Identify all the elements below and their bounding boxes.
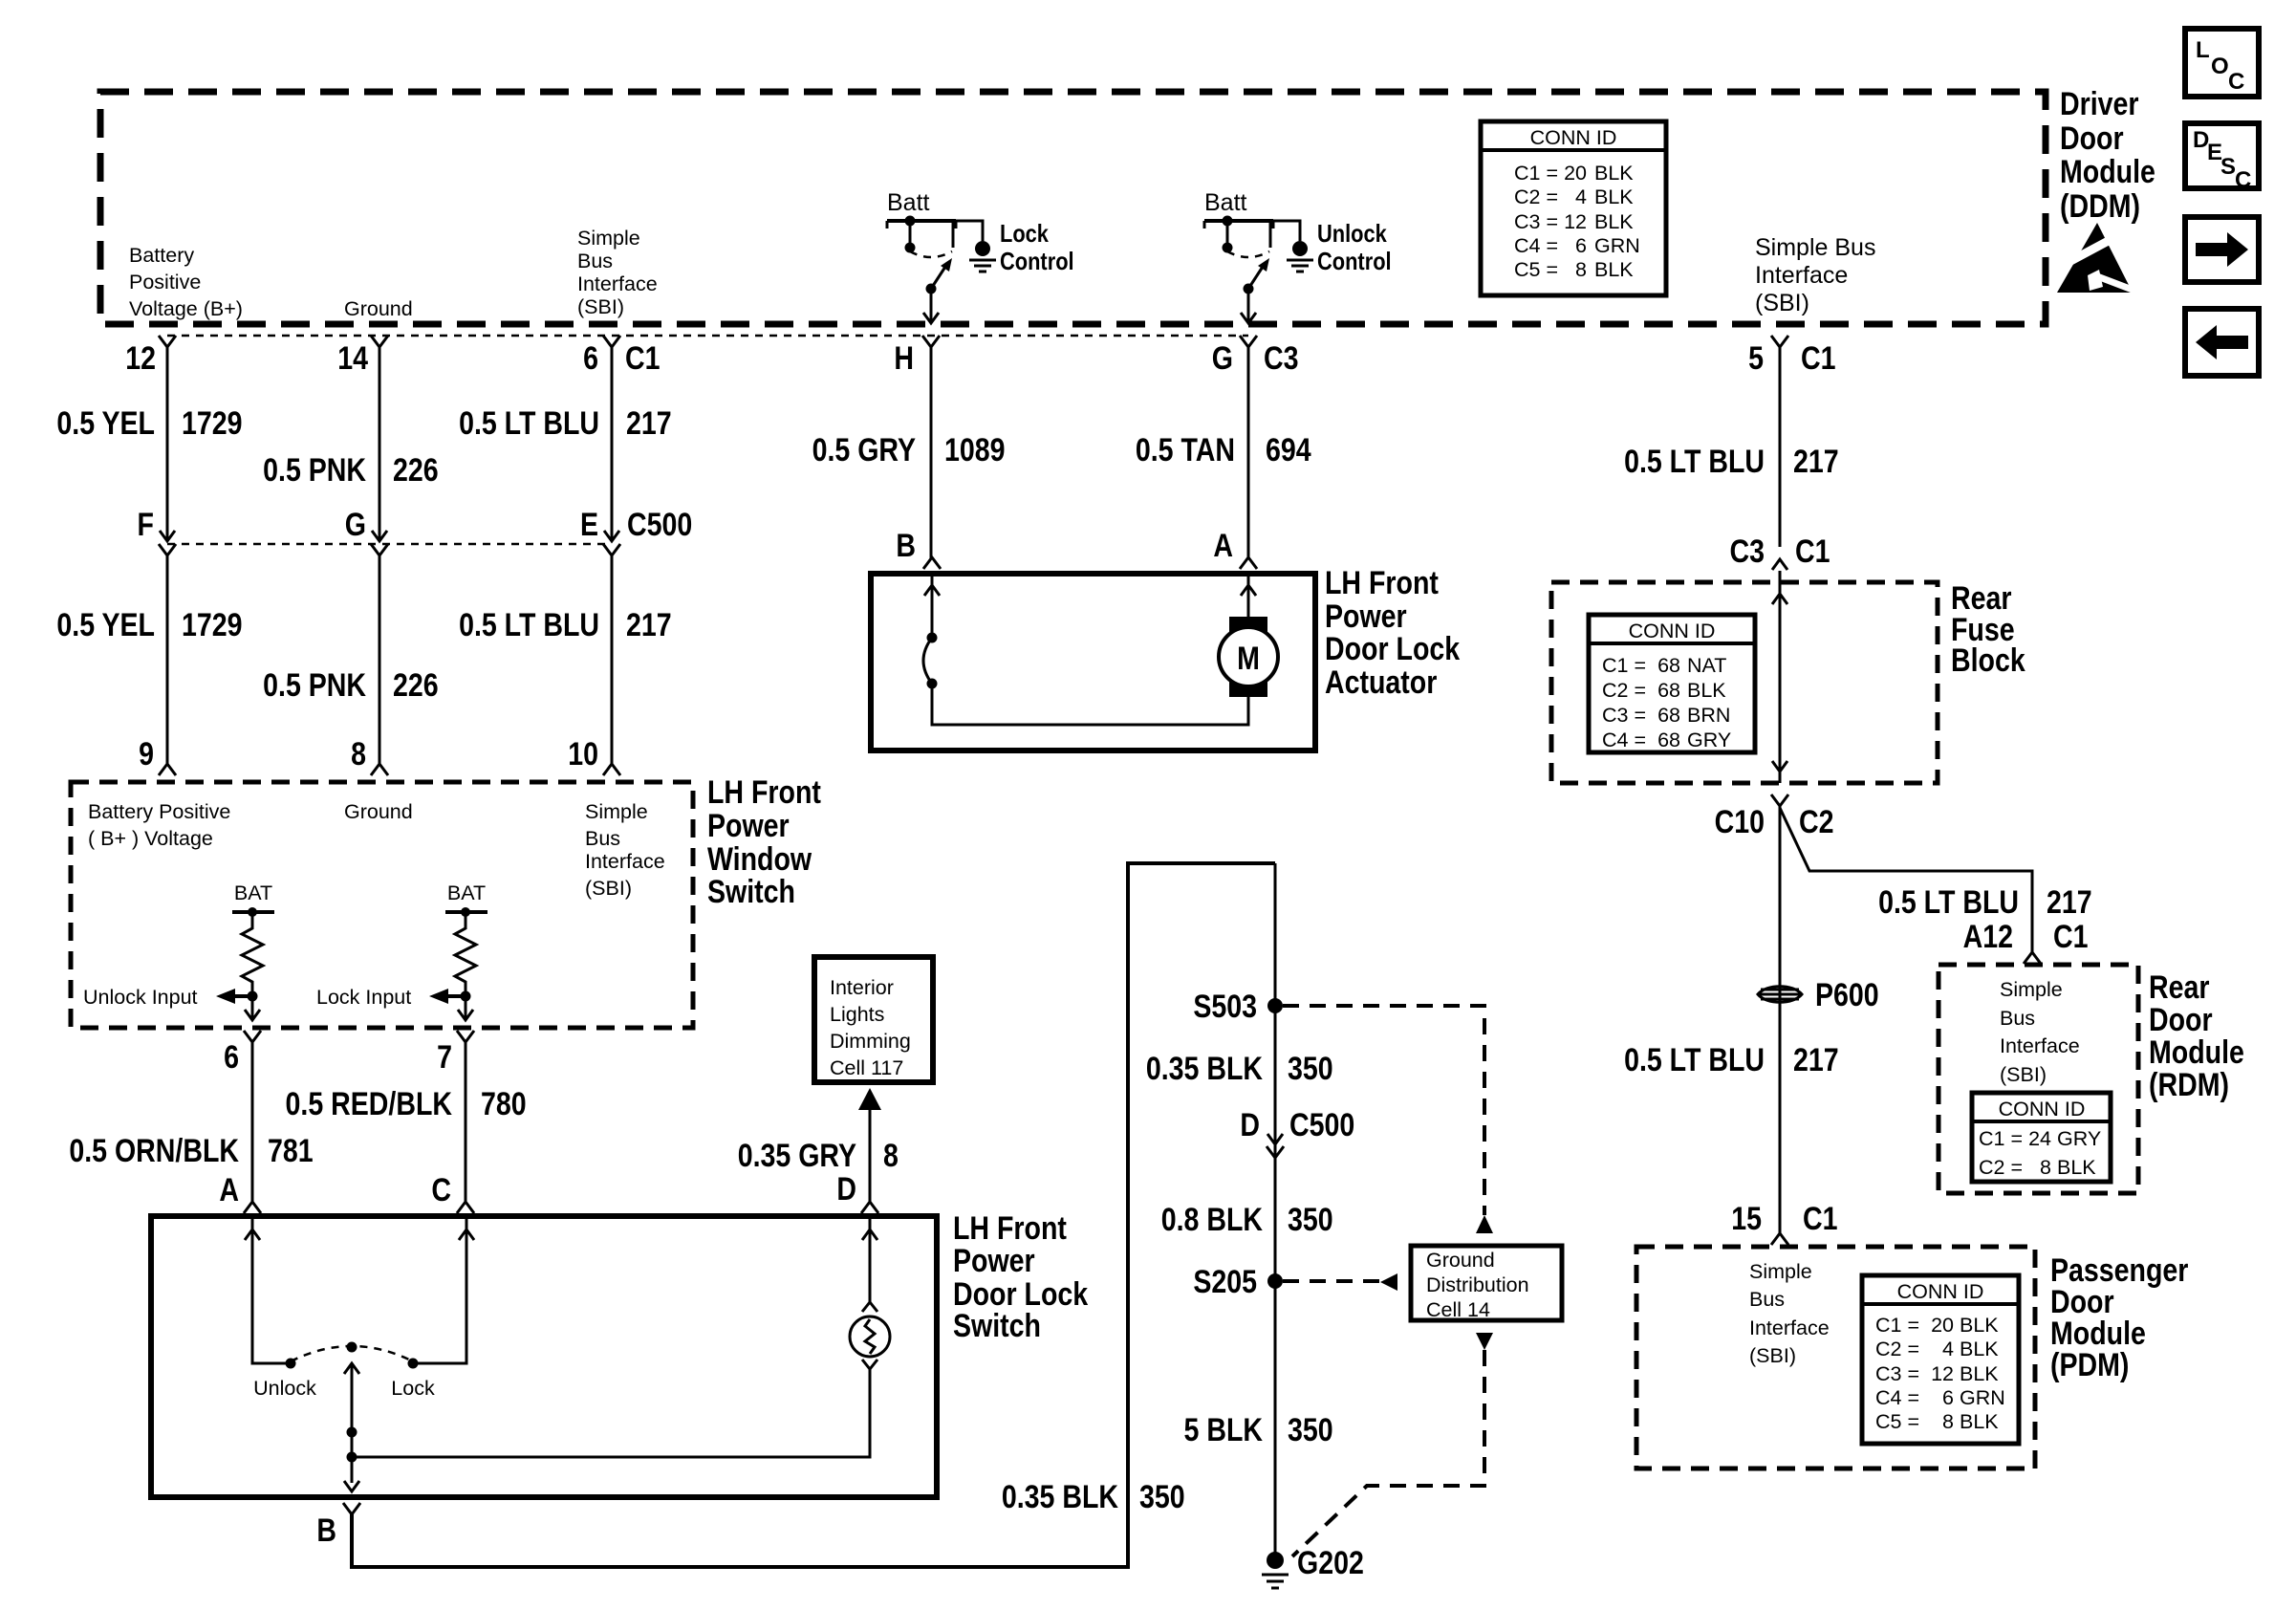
- actuator motor M: [1219, 617, 1278, 697]
- svg-text:Interface: Interface: [577, 272, 658, 295]
- actuator connector chevron pin B: [923, 557, 941, 569]
- window switch connector chevron at pin 9: [159, 764, 176, 775]
- svg-text:D: D: [1240, 1107, 1260, 1143]
- DDM CONN ID table: [1481, 121, 1666, 295]
- svg-text:Simple: Simple: [577, 227, 640, 250]
- svg-text:C1: C1: [625, 340, 660, 377]
- svg-text:C1: C1: [2053, 919, 2088, 955]
- svg-text:(SBI): (SBI): [585, 877, 632, 900]
- svg-text:C2 =: C2 =: [1979, 1156, 2023, 1179]
- Interior Lights Dimming Cell 117 box: [814, 957, 933, 1082]
- svg-text:12: 12: [1564, 210, 1587, 233]
- svg-text:0.5 RED/BLK: 0.5 RED/BLK: [286, 1086, 453, 1122]
- svg-text:Power: Power: [707, 808, 790, 844]
- Passenger Door Module (PDM) dashed box: [1636, 1247, 2035, 1469]
- RDM connector chevron: [2024, 952, 2041, 964]
- svg-text:0.5 YEL: 0.5 YEL: [56, 405, 155, 442]
- svg-text:C4 =: C4 =: [1514, 234, 1558, 257]
- Lock Control switch: dashed actuation arc: [910, 251, 952, 257]
- svg-text:(PDM): (PDM): [2050, 1347, 2129, 1383]
- svg-text:C2: C2: [1799, 804, 1833, 840]
- svg-text:217: 217: [626, 405, 672, 442]
- svg-text:217: 217: [2047, 884, 2092, 921]
- window switch label Battery Positive (B+) Voltage: [88, 800, 230, 850]
- svg-text:Interior: Interior: [830, 976, 894, 999]
- svg-text:D: D: [836, 1171, 856, 1207]
- dashed reference S503 to ground distribution: [1283, 1006, 1493, 1233]
- svg-text:Interface: Interface: [1749, 1316, 1830, 1339]
- wire 350 from switch B to ground run: [352, 863, 1275, 1567]
- svg-text:Unlock Input: Unlock Input: [83, 986, 198, 1009]
- wire label 0.5 GRY 1089: [812, 432, 1006, 468]
- svg-text:Power: Power: [953, 1243, 1035, 1279]
- svg-text:Ground: Ground: [344, 297, 413, 320]
- RDM label Simple Bus Interface (SBI): [2000, 978, 2080, 1086]
- svg-text:BLK: BLK: [1687, 679, 1726, 702]
- wire label 0.5 LT BLU 217 lower: [459, 607, 672, 643]
- svg-text:Cell 14: Cell 14: [1426, 1298, 1490, 1321]
- svg-text:Bus: Bus: [1749, 1288, 1785, 1311]
- svg-text:0.5 TAN: 0.5 TAN: [1136, 432, 1235, 468]
- wire through rear fuse block: [1772, 571, 1787, 783]
- splice S503: [1193, 989, 1283, 1025]
- off-page arrow to dimming cell: [858, 1088, 881, 1203]
- wire 217 down to passenger door module: [1779, 806, 1782, 1234]
- LOC button: [2185, 29, 2259, 97]
- BAT pull-up resistor at x=264: [232, 881, 274, 1002]
- wire 1729 yellow lower segment: [166, 555, 169, 765]
- wire 226 pink upper segment: [379, 347, 381, 541]
- svg-text:Door: Door: [2060, 120, 2124, 157]
- svg-text:8: 8: [1942, 1410, 1954, 1433]
- Rear Door Module (RDM) dashed box: [1939, 965, 2138, 1193]
- svg-text:0.8 BLK: 0.8 BLK: [1161, 1202, 1264, 1238]
- wire label 0.35 GRY 8: [738, 1138, 899, 1174]
- svg-text:Cell 117: Cell 117: [830, 1056, 903, 1079]
- wire 217 SBI from DDM pin 5: [1779, 347, 1782, 547]
- svg-text:Lights: Lights: [830, 1003, 884, 1026]
- svg-text:780: 780: [481, 1086, 527, 1122]
- wire label 0.5 YEL 1729 upper: [56, 405, 242, 442]
- svg-text:Interface: Interface: [1755, 262, 1848, 289]
- svg-text:Switch: Switch: [953, 1308, 1041, 1344]
- svg-text:C3: C3: [1264, 340, 1298, 377]
- svg-text:C: C: [2228, 69, 2244, 95]
- svg-text:BLK: BLK: [1594, 185, 1634, 208]
- svg-text:350: 350: [1288, 1202, 1333, 1238]
- svg-text:Lock: Lock: [1000, 220, 1050, 248]
- Lock Input arrow and label: [316, 986, 466, 1009]
- svg-text:Bus: Bus: [2000, 1007, 2035, 1030]
- svg-text:CONN ID: CONN ID: [1530, 126, 1617, 149]
- DDM connector chevron at pin 6 C1: [603, 336, 620, 347]
- svg-text:BLK: BLK: [1960, 1314, 1999, 1337]
- Driver Door Module (DDM) dashed box: [100, 92, 2046, 324]
- svg-text:68: 68: [1657, 679, 1680, 702]
- svg-text:(DDM): (DDM): [2060, 188, 2140, 225]
- svg-text:BAT: BAT: [447, 881, 486, 904]
- switch common pole: [344, 1342, 359, 1492]
- connector C500 halves at pin G: [372, 531, 387, 541]
- svg-text:Power: Power: [1325, 598, 1407, 635]
- svg-text:8: 8: [2040, 1156, 2051, 1179]
- svg-text:BLK: BLK: [1594, 162, 1634, 185]
- DDM name label: [2060, 86, 2155, 225]
- svg-text:Unlock: Unlock: [253, 1377, 316, 1400]
- door lock switch internal wire pin A to Unlock contact: [245, 1216, 296, 1369]
- svg-text:C3 =: C3 =: [1875, 1362, 1919, 1385]
- svg-text:7: 7: [437, 1039, 452, 1076]
- connector C3/C1 junction chevron: [1772, 559, 1787, 570]
- svg-text:0.5 GRY: 0.5 GRY: [812, 432, 916, 468]
- connector C500 dashed line: [167, 543, 612, 546]
- window switch connector chevron at pin 8: [371, 764, 388, 775]
- previous-page arrow button: [2185, 309, 2259, 376]
- svg-text:Simple: Simple: [585, 800, 648, 823]
- svg-text:( B+ ) Voltage: ( B+ ) Voltage: [88, 827, 213, 850]
- svg-text:6: 6: [583, 340, 598, 377]
- svg-text:Door: Door: [2149, 1002, 2213, 1038]
- svg-text:Ground: Ground: [344, 800, 413, 823]
- svg-text:C1 =: C1 =: [1602, 654, 1646, 677]
- wire label 0.5 YEL 1729 lower: [56, 607, 242, 643]
- Unlock Control switch: movable blade: [1244, 258, 1270, 294]
- svg-text:GRN: GRN: [1594, 234, 1640, 257]
- svg-text:68: 68: [1657, 729, 1680, 751]
- svg-text:C10: C10: [1715, 804, 1765, 840]
- DDM connector chevron at pin 5 C1: [1771, 336, 1788, 347]
- svg-text:C4 =: C4 =: [1875, 1386, 1919, 1409]
- actuator name label: [1325, 565, 1461, 701]
- svg-text:G202: G202: [1297, 1545, 1364, 1581]
- svg-text:217: 217: [1793, 444, 1839, 480]
- svg-text:CONN ID: CONN ID: [1999, 1098, 2086, 1120]
- LH Front Power Door Lock Switch box: [151, 1216, 937, 1497]
- wire label 0.5 LT BLU 217 (DDM to fuse block): [1624, 444, 1839, 480]
- svg-text:GRY: GRY: [1687, 729, 1731, 751]
- svg-text:S503: S503: [1193, 989, 1257, 1025]
- Rear Fuse Block dashed box: [1551, 582, 1938, 783]
- svg-text:M: M: [1237, 641, 1260, 677]
- svg-text:Window: Window: [707, 841, 812, 878]
- svg-text:L: L: [2196, 37, 2210, 63]
- svg-text:H: H: [894, 340, 914, 377]
- svg-text:226: 226: [393, 452, 439, 489]
- LH Front Power Window Switch dashed box: [71, 782, 693, 1028]
- PDM name label: [2050, 1252, 2188, 1383]
- svg-text:Voltage (B+): Voltage (B+): [129, 297, 243, 320]
- svg-text:12: 12: [1931, 1362, 1954, 1385]
- svg-text:Simple: Simple: [1749, 1260, 1812, 1283]
- svg-text:Simple: Simple: [2000, 978, 2063, 1001]
- svg-text:1089: 1089: [944, 432, 1006, 468]
- svg-text:(SBI): (SBI): [2000, 1063, 2047, 1086]
- svg-text:S: S: [2220, 154, 2236, 180]
- svg-text:G: G: [1212, 340, 1233, 377]
- wire 217 light blue lower segment: [611, 555, 614, 765]
- svg-text:S205: S205: [1193, 1264, 1257, 1300]
- svg-text:BLK: BLK: [2057, 1156, 2096, 1179]
- actuator internal wire pin A: [1241, 574, 1256, 617]
- svg-text:0.5 LT BLU: 0.5 LT BLU: [459, 405, 599, 442]
- wire label 0.5 LT BLU 217 (branch): [1878, 884, 2092, 921]
- Ground Distribution Cell 14 box: [1411, 1246, 1562, 1321]
- svg-text:9: 9: [139, 736, 154, 772]
- window switch connector chevron at pin 10: [603, 764, 620, 775]
- svg-text:BAT: BAT: [234, 881, 272, 904]
- svg-text:68: 68: [1657, 704, 1680, 727]
- Lock Control switch: Batt feed: [887, 189, 956, 253]
- svg-text:0.5 PNK: 0.5 PNK: [263, 667, 366, 704]
- svg-text:(SBI): (SBI): [577, 295, 624, 318]
- svg-text:Switch: Switch: [707, 874, 795, 910]
- svg-text:0.5 LT BLU: 0.5 LT BLU: [1624, 1042, 1765, 1078]
- svg-text:C500: C500: [627, 507, 692, 543]
- svg-text:14: 14: [337, 340, 368, 377]
- svg-text:Bus: Bus: [577, 250, 613, 272]
- switch blade dashed arc: [291, 1346, 413, 1361]
- svg-text:12: 12: [125, 340, 156, 377]
- ground G202: [1262, 1545, 1364, 1588]
- svg-text:0.35 BLK: 0.35 BLK: [1146, 1051, 1263, 1087]
- DDM pin function label: Simple Bus Interface (SBI) left: [577, 227, 658, 318]
- wire label 0.5 TAN 694: [1136, 432, 1311, 468]
- svg-text:B: B: [316, 1512, 336, 1549]
- svg-text:0.5 PNK: 0.5 PNK: [263, 452, 366, 489]
- svg-text:C3 =: C3 =: [1514, 210, 1558, 233]
- svg-text:350: 350: [1139, 1479, 1185, 1515]
- PDM CONN ID table: [1862, 1275, 2019, 1444]
- svg-text:350: 350: [1288, 1051, 1333, 1087]
- Unlock Input arrow and label: [83, 986, 252, 1009]
- svg-text:Rear: Rear: [2149, 969, 2209, 1006]
- svg-text:5 BLK: 5 BLK: [1184, 1412, 1264, 1448]
- svg-text:Batt: Batt: [1204, 189, 1247, 216]
- wire label 0.5 ORN/BLK 781: [69, 1133, 313, 1169]
- svg-text:217: 217: [626, 607, 672, 643]
- svg-text:Lock: Lock: [391, 1377, 435, 1400]
- DDM pin function label: Battery Positive Voltage (B+): [129, 244, 243, 320]
- PDM label Simple Bus Interface (SBI): [1749, 1260, 1830, 1367]
- svg-text:Batt: Batt: [887, 189, 930, 216]
- svg-text:C1: C1: [1803, 1201, 1837, 1237]
- svg-text:6: 6: [224, 1039, 239, 1076]
- svg-text:0.5 LT BLU: 0.5 LT BLU: [1878, 884, 2019, 921]
- svg-text:Block: Block: [1951, 642, 2025, 679]
- svg-text:A: A: [1213, 528, 1233, 564]
- svg-text:GRN: GRN: [1960, 1386, 2005, 1409]
- svg-text:BLK: BLK: [1594, 258, 1634, 281]
- wire label 0.35 BLK 350 (switch to ground): [1002, 1479, 1185, 1515]
- svg-text:8: 8: [351, 736, 366, 772]
- svg-text:6: 6: [1942, 1386, 1954, 1409]
- door lock switch connector chevron pin B: [343, 1503, 360, 1514]
- svg-text:0.35 GRY: 0.35 GRY: [738, 1138, 856, 1174]
- svg-text:694: 694: [1266, 432, 1311, 468]
- svg-text:NAT: NAT: [1687, 654, 1726, 677]
- svg-text:Unlock: Unlock: [1317, 220, 1387, 248]
- BAT pull-up resistor at x=487: [445, 881, 487, 1002]
- svg-text:Distribution: Distribution: [1426, 1273, 1529, 1296]
- lamp lower chevron and wire to common: [352, 1360, 877, 1457]
- svg-text:F: F: [138, 507, 154, 543]
- svg-text:8: 8: [1575, 258, 1587, 281]
- svg-text:15: 15: [1731, 1201, 1762, 1237]
- svg-text:C2 =: C2 =: [1514, 185, 1558, 208]
- svg-text:BRN: BRN: [1687, 704, 1730, 727]
- svg-text:24: 24: [2028, 1127, 2051, 1150]
- DDM connector chevron at pin H: [922, 336, 940, 347]
- svg-text:Simple Bus: Simple Bus: [1755, 234, 1875, 261]
- svg-text:10: 10: [568, 736, 598, 772]
- svg-text:Control: Control: [1000, 248, 1074, 275]
- RDM name label: [2149, 969, 2244, 1103]
- svg-text:O: O: [2211, 54, 2229, 79]
- wire label 0.35 BLK 350: [1146, 1051, 1333, 1087]
- svg-text:20: 20: [1564, 162, 1587, 185]
- DDM connector chevron at pin 14: [371, 336, 388, 347]
- door lock switch connector chevron pin D: [861, 1202, 878, 1213]
- connector C500 halves at pin E: [604, 531, 619, 541]
- svg-text:1729: 1729: [182, 405, 243, 442]
- Lock Control label: [1000, 220, 1074, 275]
- svg-text:Interface: Interface: [2000, 1034, 2080, 1057]
- wire label 0.5 RED/BLK 780: [286, 1086, 527, 1122]
- svg-text:LH Front: LH Front: [953, 1210, 1067, 1247]
- svg-text:Positive: Positive: [129, 271, 201, 294]
- ground wire 350 main run: [1274, 863, 1277, 1560]
- DDM connector C1/C3 thin dashed line: [167, 335, 1248, 337]
- svg-text:350: 350: [1288, 1412, 1333, 1448]
- DDM pin function label: Simple Bus Interface (SBI) right: [1755, 234, 1875, 316]
- svg-text:0.5 ORN/BLK: 0.5 ORN/BLK: [69, 1133, 239, 1169]
- svg-text:(SBI): (SBI): [1749, 1344, 1796, 1367]
- svg-text:Module: Module: [2149, 1034, 2244, 1071]
- svg-text:0.5 YEL: 0.5 YEL: [56, 607, 155, 643]
- svg-text:BLK: BLK: [1960, 1338, 1999, 1360]
- rear fuse block name label: [1951, 580, 2025, 679]
- svg-text:BLK: BLK: [1960, 1410, 1999, 1433]
- rear fuse block CONN ID table: [1589, 615, 1755, 752]
- svg-text:C1: C1: [1795, 533, 1830, 570]
- svg-text:C2 =: C2 =: [1602, 679, 1646, 702]
- dashed reference ground distribution to G202: [1292, 1333, 1493, 1556]
- svg-text:C2 =: C2 =: [1875, 1338, 1919, 1360]
- svg-text:C500: C500: [1289, 1107, 1354, 1143]
- Lock Control switch: movable blade: [926, 258, 953, 294]
- wire 226 pink lower segment: [379, 555, 381, 765]
- svg-text:C1: C1: [1801, 340, 1835, 377]
- Lock Control switch: output wire with arrow: [923, 289, 939, 323]
- splice S205: [1193, 1264, 1283, 1300]
- svg-text:C5 =: C5 =: [1875, 1410, 1919, 1433]
- svg-text:20: 20: [1931, 1314, 1954, 1337]
- svg-text:CONN ID: CONN ID: [1897, 1280, 1984, 1303]
- svg-text:G: G: [345, 507, 366, 543]
- svg-text:C4 =: C4 =: [1602, 729, 1646, 751]
- illumination lamp: [850, 1316, 890, 1357]
- svg-text:8: 8: [883, 1138, 899, 1174]
- illumination lamp feed wire pin D: [862, 1216, 877, 1312]
- svg-text:Ground: Ground: [1426, 1249, 1495, 1272]
- svg-text:C3 =: C3 =: [1602, 704, 1646, 727]
- connector C10/C2 chevron below fuse block: [1771, 794, 1788, 806]
- svg-text:0.35 BLK: 0.35 BLK: [1002, 1479, 1118, 1515]
- svg-text:BLK: BLK: [1594, 210, 1634, 233]
- LH Front Power Door Lock Actuator box: [871, 574, 1315, 751]
- window switch label Simple Bus Interface (SBI): [585, 800, 665, 900]
- svg-text:Dimming: Dimming: [830, 1030, 911, 1053]
- svg-text:C: C: [431, 1172, 451, 1208]
- svg-text:C5 =: C5 =: [1514, 258, 1558, 281]
- svg-text:217: 217: [1793, 1042, 1839, 1078]
- door lock switch connector chevron pin C: [457, 1202, 474, 1213]
- DDM pin function label: Ground: [344, 297, 413, 320]
- svg-text:A: A: [219, 1172, 239, 1208]
- svg-text:Lock Input: Lock Input: [316, 986, 411, 1009]
- svg-text:781: 781: [268, 1133, 314, 1169]
- dashed reference S205 to ground distribution: [1283, 1273, 1397, 1291]
- splice P600: [1758, 977, 1879, 1013]
- door lock switch connector chevron pin A: [244, 1202, 261, 1213]
- svg-text:C3: C3: [1730, 533, 1765, 570]
- svg-text:C1 =: C1 =: [1979, 1127, 2023, 1150]
- wire 217 light blue upper segment: [611, 347, 614, 541]
- Unlock Control label: [1317, 220, 1392, 275]
- svg-text:A12: A12: [1963, 919, 2013, 955]
- window switch name label: [707, 774, 821, 910]
- svg-text:Battery: Battery: [129, 244, 194, 267]
- wire 694 tan segment: [1247, 347, 1250, 558]
- svg-text:Door Lock: Door Lock: [1325, 631, 1461, 667]
- svg-text:B: B: [896, 528, 916, 564]
- svg-text:P600: P600: [1815, 977, 1879, 1013]
- DESC button: [2185, 123, 2259, 193]
- svg-text:Driver: Driver: [2060, 86, 2139, 122]
- svg-text:4: 4: [1942, 1338, 1954, 1360]
- Unlock Control switch: dashed actuation arc: [1227, 251, 1269, 257]
- svg-text:CONN ID: CONN ID: [1629, 620, 1716, 642]
- wire label 5 BLK 350: [1184, 1412, 1333, 1448]
- actuator internal wire pin B with switch contact: [923, 574, 1248, 725]
- svg-text:Bus: Bus: [585, 827, 620, 850]
- svg-text:E: E: [580, 507, 598, 543]
- svg-text:Interface: Interface: [585, 850, 665, 873]
- svg-text:GRY: GRY: [2057, 1127, 2101, 1150]
- wire 781 segment to door lock switch: [251, 1042, 254, 1203]
- svg-text:LH Front: LH Front: [707, 774, 821, 811]
- connector C500 halves at pin F: [160, 531, 175, 541]
- svg-text:5: 5: [1748, 340, 1764, 377]
- svg-text:226: 226: [393, 667, 439, 704]
- Unlock Control switch: coil contact and ground: [1270, 221, 1313, 272]
- svg-text:C1 =: C1 =: [1514, 162, 1558, 185]
- svg-text:C: C: [2235, 167, 2251, 193]
- ESD sensitive symbol: [2057, 223, 2137, 293]
- wire with arrow leaving window switch at x=264: [244, 996, 261, 1042]
- svg-text:C1 =: C1 =: [1875, 1314, 1919, 1337]
- svg-text:(SBI): (SBI): [1755, 290, 1809, 316]
- wire label 0.8 BLK 350: [1161, 1202, 1333, 1238]
- wire 780 segment to door lock switch: [465, 1042, 467, 1203]
- svg-text:68: 68: [1657, 654, 1680, 677]
- window switch label Ground: [344, 800, 413, 823]
- svg-text:Battery Positive: Battery Positive: [88, 800, 230, 823]
- wire label 0.5 LT BLU 217 upper: [459, 405, 672, 442]
- svg-text:LH Front: LH Front: [1325, 565, 1439, 601]
- svg-text:6: 6: [1575, 234, 1587, 257]
- svg-text:0.5 LT BLU: 0.5 LT BLU: [459, 607, 599, 643]
